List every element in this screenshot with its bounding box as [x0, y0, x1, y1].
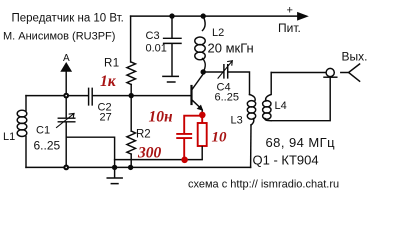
connector Вых circle: [326, 68, 334, 76]
wire L4 bottom to connector ground: [271, 77, 330, 121]
svg-text:C1: C1: [36, 125, 50, 137]
inductor L2: [203, 16, 206, 30]
node dot top rail L2: [201, 13, 206, 18]
capacitor 10n red: [177, 134, 191, 160]
svg-text:+: +: [287, 5, 293, 17]
connector bar: [324, 76, 337, 78]
antenna arrow A: [61, 63, 71, 71]
wire resistor10 bottom black: [201, 146, 203, 160]
svg-text:10н: 10н: [149, 109, 174, 126]
svg-text:Вых.: Вых.: [342, 50, 368, 64]
svg-text:68, 94 МГц: 68, 94 МГц: [266, 135, 336, 150]
node dot red cap bottom: [181, 157, 188, 164]
node dot top rail C3: [169, 13, 174, 18]
wire L4 top to output: [271, 72, 326, 74]
wire C1 tap to ground column: [67, 137, 115, 167]
node dot collector: [201, 69, 206, 74]
node dot rail ground: [112, 165, 117, 170]
capacitor C4 variable: [224, 65, 228, 78]
svg-text:300: 300: [137, 145, 162, 162]
svg-text:Передатчик на 10 Вт.: Передатчик на 10 Вт.: [12, 13, 124, 25]
wire R1 bottom to base junction: [130, 85, 132, 96]
connector fork: [341, 64, 360, 81]
supply arrow: [298, 13, 308, 20]
wire R2 bottom to rail: [130, 154, 132, 167]
svg-text:А: А: [63, 53, 70, 64]
svg-text:Q1 - КТ904: Q1 - КТ904: [253, 153, 319, 168]
capacitor C2: [89, 88, 93, 105]
svg-text:6..25: 6..25: [34, 139, 61, 153]
wire left column from top rail to R1: [130, 16, 132, 62]
capacitor C3: [164, 16, 181, 75]
wire R2 column: [130, 96, 132, 131]
red emitter network: [177, 112, 207, 164]
svg-text:М. Анисимов (RU3PF): М. Анисимов (RU3PF): [3, 31, 115, 43]
node dot base antenna: [63, 93, 69, 99]
inductor L4: [266, 73, 272, 102]
wire L3 bottom to rail: [250, 125, 252, 167]
svg-text:L3: L3: [231, 115, 243, 127]
svg-text:L1: L1: [3, 131, 15, 143]
wire antenna stub: [65, 70, 67, 96]
wire red emitter node to cap: [184, 116, 202, 134]
inductor L3: [250, 95, 256, 102]
wire base line left (tank top): [26, 95, 88, 97]
ground main: [107, 167, 122, 183]
svg-text:0.01: 0.01: [146, 43, 167, 55]
wire base line right to Q1 base: [93, 95, 191, 97]
node dot red emitter: [199, 112, 206, 119]
ground C3: [163, 76, 178, 82]
wire collector to C4: [203, 71, 223, 73]
svg-text:6..25: 6..25: [215, 92, 239, 104]
wire C4 to L3: [228, 72, 249, 95]
resistor R2: [127, 131, 136, 154]
transistor Q1: [190, 86, 192, 104]
node dot base R1R2: [129, 93, 134, 98]
wire tank bottom rail / ground rail: [26, 166, 251, 168]
inductor L1: [25, 96, 27, 111]
svg-text:20 мкГн: 20 мкГн: [208, 40, 254, 55]
resistor 10 red: [201, 116, 203, 123]
svg-text:27: 27: [100, 112, 112, 124]
svg-text:C3: C3: [146, 30, 160, 42]
node dot rail R2: [128, 165, 133, 170]
wire emitter return W2: [115, 159, 203, 161]
svg-text:L4: L4: [275, 100, 287, 112]
svg-text:1к: 1к: [100, 73, 117, 90]
svg-text:Пит.: Пит.: [278, 21, 301, 35]
svg-text:L2: L2: [212, 27, 224, 39]
svg-text:схема с http:// ismradio.chat.: схема с http:// ismradio.chat.ru: [188, 179, 339, 191]
svg-text:10: 10: [212, 130, 228, 146]
resistor R1: [127, 62, 136, 85]
wire top supply rail: [131, 15, 299, 17]
svg-text:R2: R2: [136, 129, 151, 141]
node dot rail C1: [63, 165, 69, 171]
svg-text:R1: R1: [104, 57, 120, 69]
capacitor C1 variable: [58, 96, 75, 168]
